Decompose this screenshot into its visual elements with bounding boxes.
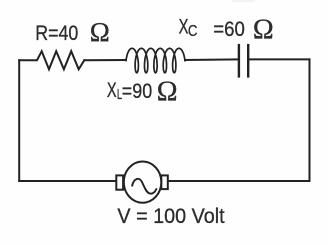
svg-text:R=40: R=40 (35, 21, 78, 45)
svg-text:V = 100 Volt: V = 100 Volt (117, 204, 224, 228)
svg-text:=90: =90 (122, 79, 152, 103)
svg-text:Ω: Ω (157, 77, 178, 108)
svg-text:Ω: Ω (90, 17, 110, 47)
svg-text:=60: =60 (213, 17, 245, 41)
svg-text:C: C (188, 23, 198, 40)
svg-text:X: X (107, 78, 117, 102)
svg-text:Ω: Ω (253, 14, 274, 45)
